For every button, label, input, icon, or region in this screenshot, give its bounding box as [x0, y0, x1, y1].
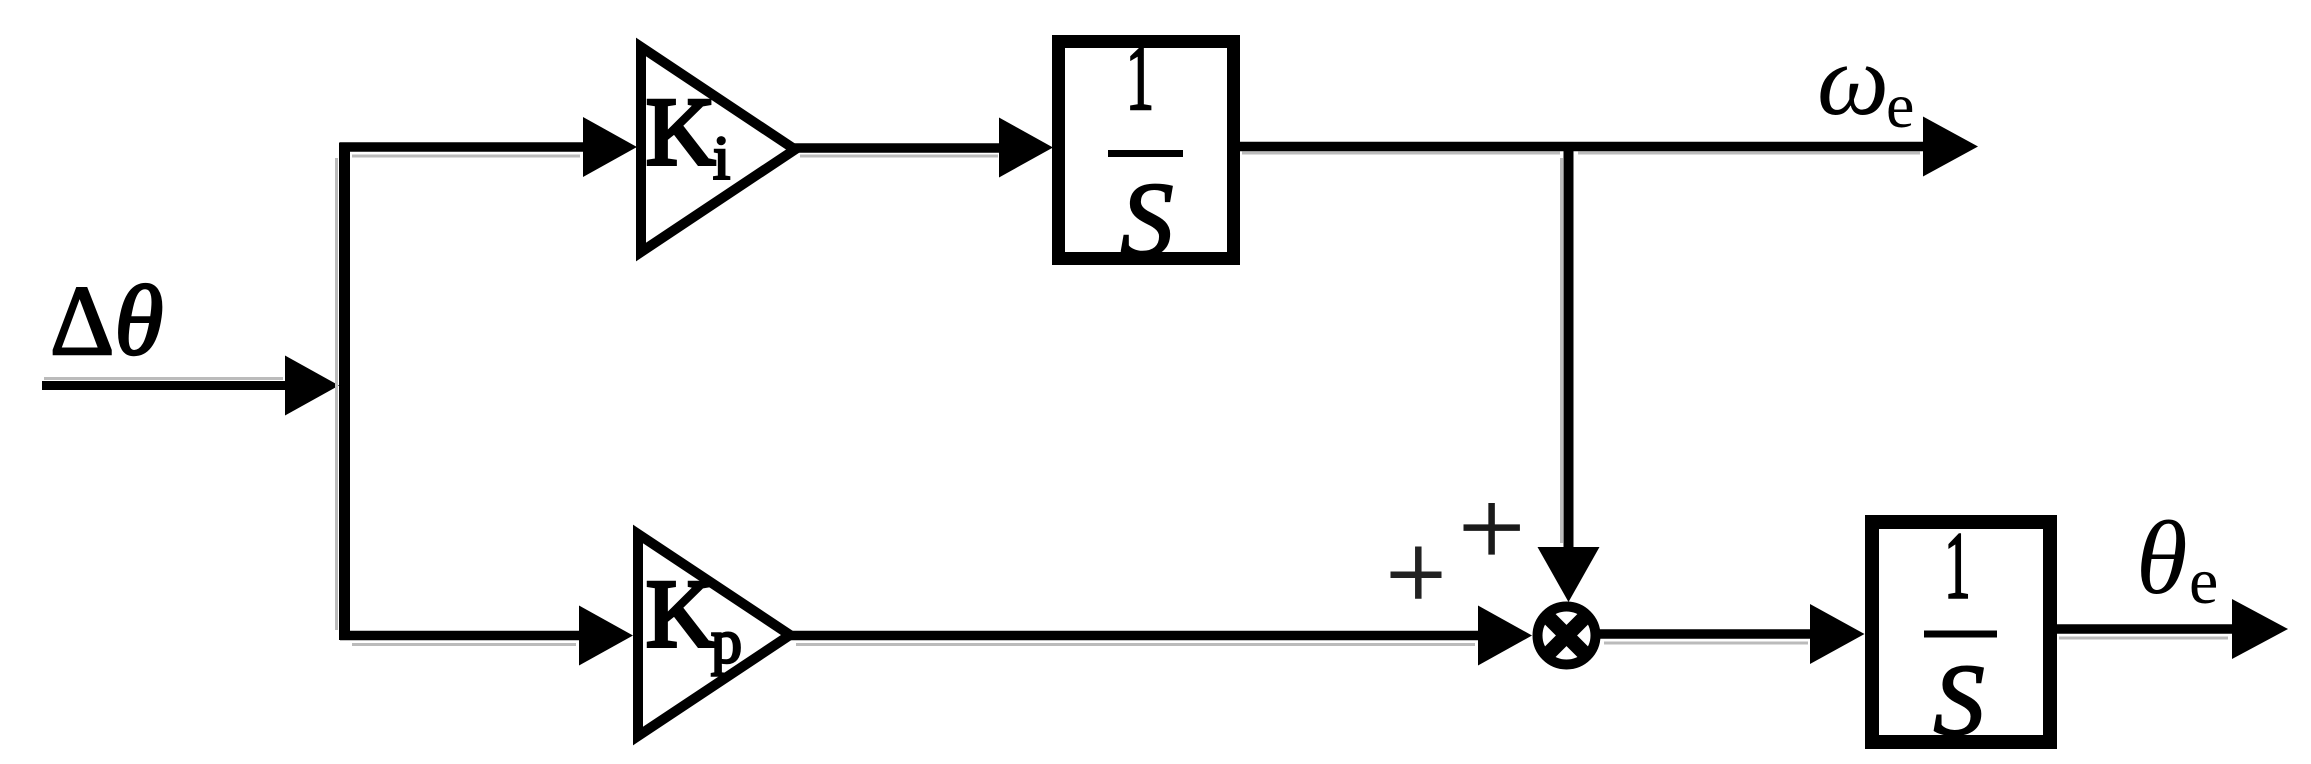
plus sign (integrator drop input) — [1464, 503, 1520, 555]
svg-text:i: i — [713, 125, 730, 193]
wire: Ki to integrator 1 — [793, 118, 1053, 178]
svg-text:e: e — [2189, 545, 2218, 618]
node label theta_e (output) — [2136, 499, 2218, 618]
integrator block 1/S (top) — [1059, 25, 1234, 278]
svg-text:p: p — [711, 608, 742, 676]
wire: branch to Kp gain — [340, 606, 633, 666]
svg-text:Δθ: Δθ — [50, 265, 163, 376]
wire: input arrow into branch node — [42, 356, 339, 416]
node label omega_e (output) — [1817, 24, 1914, 141]
wire: integrator 1 to omega_e output — [1240, 117, 1978, 177]
wire: Kp to summing junction — [788, 606, 1532, 666]
svg-text:e: e — [1886, 70, 1914, 141]
svg-text:S: S — [1934, 644, 1985, 757]
integrator block 1/S (bottom) — [1872, 513, 2050, 757]
wire: tap from omega line down to summing junction — [1538, 142, 1600, 602]
wire ghost fringes (upscaling artifacts in source) — [44, 153, 2228, 645]
wire: summing junction to integrator 2 — [1599, 604, 1865, 664]
svg-text:1: 1 — [1944, 513, 1970, 618]
gain block K_i (triangle) — [641, 47, 795, 252]
wire: branch to Ki gain — [340, 117, 637, 177]
gain block K_p (triangle) — [638, 534, 790, 736]
plus sign (Kp branch input) — [1391, 547, 1442, 599]
svg-text:θ: θ — [2136, 499, 2188, 616]
svg-text:K: K — [646, 560, 715, 667]
wire: integrator 2 to theta_e output — [2057, 599, 2288, 659]
summing junction (circle with X) — [1538, 607, 1596, 665]
svg-text:S: S — [1121, 161, 1174, 278]
svg-text:1: 1 — [1126, 25, 1154, 129]
wire: vertical branch line — [339, 143, 350, 641]
svg-text:K: K — [646, 78, 715, 185]
svg-text:ω: ω — [1817, 24, 1889, 137]
